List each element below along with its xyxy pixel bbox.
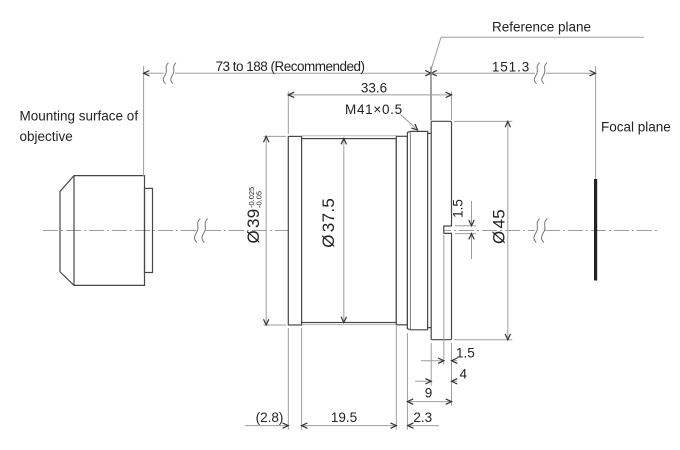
centerline <box>43 230 659 232</box>
svg-text:Focal plane: Focal plane <box>601 120 671 135</box>
dim 33.6 <box>288 92 451 135</box>
dim 19.5 <box>302 425 397 427</box>
barrel (19.5 section) <box>302 139 397 323</box>
ring (2.3 section) <box>396 136 407 324</box>
focal plane thin extension <box>595 66 597 180</box>
svg-text:(2.8): (2.8) <box>256 410 284 425</box>
dim Ø45 <box>454 121 512 339</box>
dim 73 to 188 (Recommended) <box>144 66 431 176</box>
svg-text:Ø37.5: Ø37.5 <box>319 198 338 248</box>
svg-text:Ø39: Ø39 <box>244 208 263 243</box>
svg-text:151.3: 151.3 <box>492 60 530 75</box>
objective snout <box>145 188 153 272</box>
svg-text:objective: objective <box>20 129 73 144</box>
dim 151.3 <box>431 72 596 74</box>
reference plane extension line <box>430 67 432 121</box>
centerline break squiggles <box>194 219 547 243</box>
svg-text:Mounting surface of: Mounting surface of <box>20 109 139 124</box>
svg-text:-0.05: -0.05 <box>254 191 263 208</box>
dim (2.8) <box>245 425 288 427</box>
collar between thread and flange <box>428 133 432 327</box>
svg-text:4: 4 <box>460 366 468 381</box>
focal plane thick mark <box>594 179 597 281</box>
svg-text:2.3: 2.3 <box>413 410 432 425</box>
svg-text:9: 9 <box>425 386 433 401</box>
svg-text:19.5: 19.5 <box>331 410 357 425</box>
thread chamfer line <box>409 131 411 329</box>
dim 9 <box>407 401 451 403</box>
dim Ø37.5 (internal) <box>343 139 345 323</box>
svg-text:33.6: 33.6 <box>361 81 387 96</box>
dim 1.5 vertical (notch height) <box>455 201 476 259</box>
dim Ø39 with tolerance <box>264 136 287 325</box>
svg-text:Ø45: Ø45 <box>490 209 509 244</box>
svg-text:Reference plane: Reference plane <box>492 20 591 35</box>
tangent faint lines over barrel <box>302 135 396 137</box>
svg-text:1.5: 1.5 <box>456 346 475 361</box>
band Ø39 (2.8 section) <box>288 136 301 325</box>
svg-text:M41×0.5: M41×0.5 <box>345 102 403 117</box>
dim 2.3 <box>407 425 439 427</box>
dim 4 <box>415 380 457 382</box>
svg-text:1.5: 1.5 <box>451 199 466 218</box>
thread M41 section <box>407 131 427 329</box>
dim 1.5 bottom (notch depth) <box>421 360 457 362</box>
svg-text:73 to 188 (Recommended): 73 to 188 (Recommended) <box>215 59 364 74</box>
flange Ø45 with rear notch <box>431 121 451 339</box>
objective body <box>60 176 145 286</box>
reference plane tick (opposing arrowheads) <box>425 71 431 76</box>
extension lines below <box>288 235 451 430</box>
